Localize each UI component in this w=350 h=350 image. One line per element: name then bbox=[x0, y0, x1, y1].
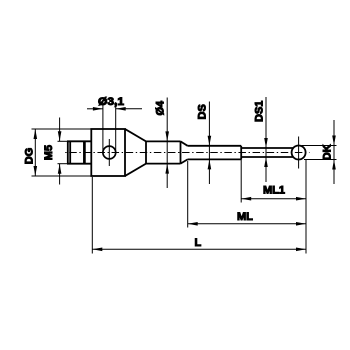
step DS to DS1 bbox=[240, 146, 242, 160]
svg-text:ML1: ML1 bbox=[263, 185, 285, 197]
dimension hole diameter 3,1 bbox=[87, 102, 142, 152]
cone section bbox=[125, 129, 146, 176]
stem DS section bbox=[188, 146, 242, 160]
svg-text:Ø4: Ø4 bbox=[155, 100, 167, 116]
svg-text:M5: M5 bbox=[43, 145, 55, 160]
dimension ML1 bbox=[241, 159, 306, 254]
dimension DK bbox=[302, 120, 337, 184]
svg-text:DS1: DS1 bbox=[253, 101, 265, 122]
cross hole circle bbox=[103, 146, 116, 159]
svg-text:L: L bbox=[195, 237, 202, 249]
svg-text:Ø3,1: Ø3,1 bbox=[98, 96, 124, 108]
stem D4 section bbox=[146, 141, 181, 163]
svg-text:ML: ML bbox=[237, 211, 253, 223]
hole vertical centerline bbox=[108, 139, 110, 166]
centerline main axis bbox=[63, 152, 310, 154]
ball vertical centerline bbox=[298, 137, 300, 169]
dimension D4 bbox=[165, 98, 169, 189]
dimension ML bbox=[188, 161, 306, 228]
taper D4 to DS bbox=[181, 141, 188, 163]
stem DS1 section bbox=[241, 148, 293, 157]
ball DK bbox=[292, 146, 306, 160]
svg-text:DK: DK bbox=[322, 144, 334, 160]
dimension DG bbox=[32, 129, 92, 176]
svg-text:DG: DG bbox=[24, 148, 36, 165]
dimension DS1 bbox=[264, 97, 268, 182]
dimension DS bbox=[208, 102, 212, 185]
dimension M5 bbox=[58, 118, 68, 185]
dimension L bbox=[92, 177, 306, 254]
thread M5 stub bbox=[67, 141, 92, 163]
svg-text:DS: DS bbox=[196, 104, 208, 119]
body outline bbox=[91, 129, 125, 176]
